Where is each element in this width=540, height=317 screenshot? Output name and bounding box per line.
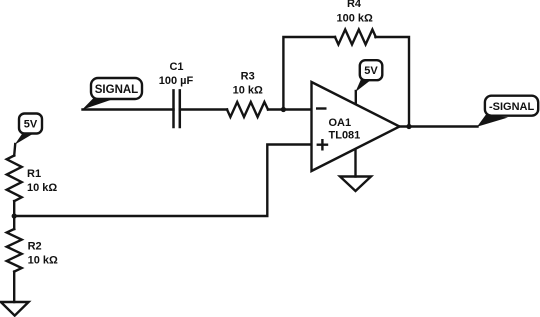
svg-text:SIGNAL: SIGNAL xyxy=(95,84,138,96)
svg-text:R3: R3 xyxy=(241,71,255,83)
svg-text:100 µF: 100 µF xyxy=(159,75,194,87)
svg-text:R4: R4 xyxy=(347,0,362,10)
svg-text:10 kΩ: 10 kΩ xyxy=(28,255,58,267)
svg-text:5V: 5V xyxy=(24,119,38,131)
svg-text:10 kΩ: 10 kΩ xyxy=(27,182,57,194)
svg-text:R2: R2 xyxy=(28,241,42,253)
svg-text:TL081: TL081 xyxy=(329,130,361,142)
svg-text:C1: C1 xyxy=(169,61,183,73)
svg-text:5V: 5V xyxy=(364,65,378,77)
svg-text:100 kΩ: 100 kΩ xyxy=(337,13,374,25)
svg-text:OA1: OA1 xyxy=(329,117,352,129)
svg-text:R1: R1 xyxy=(27,168,41,180)
svg-text:10 kΩ: 10 kΩ xyxy=(233,84,263,96)
svg-text:-SIGNAL: -SIGNAL xyxy=(489,101,535,113)
